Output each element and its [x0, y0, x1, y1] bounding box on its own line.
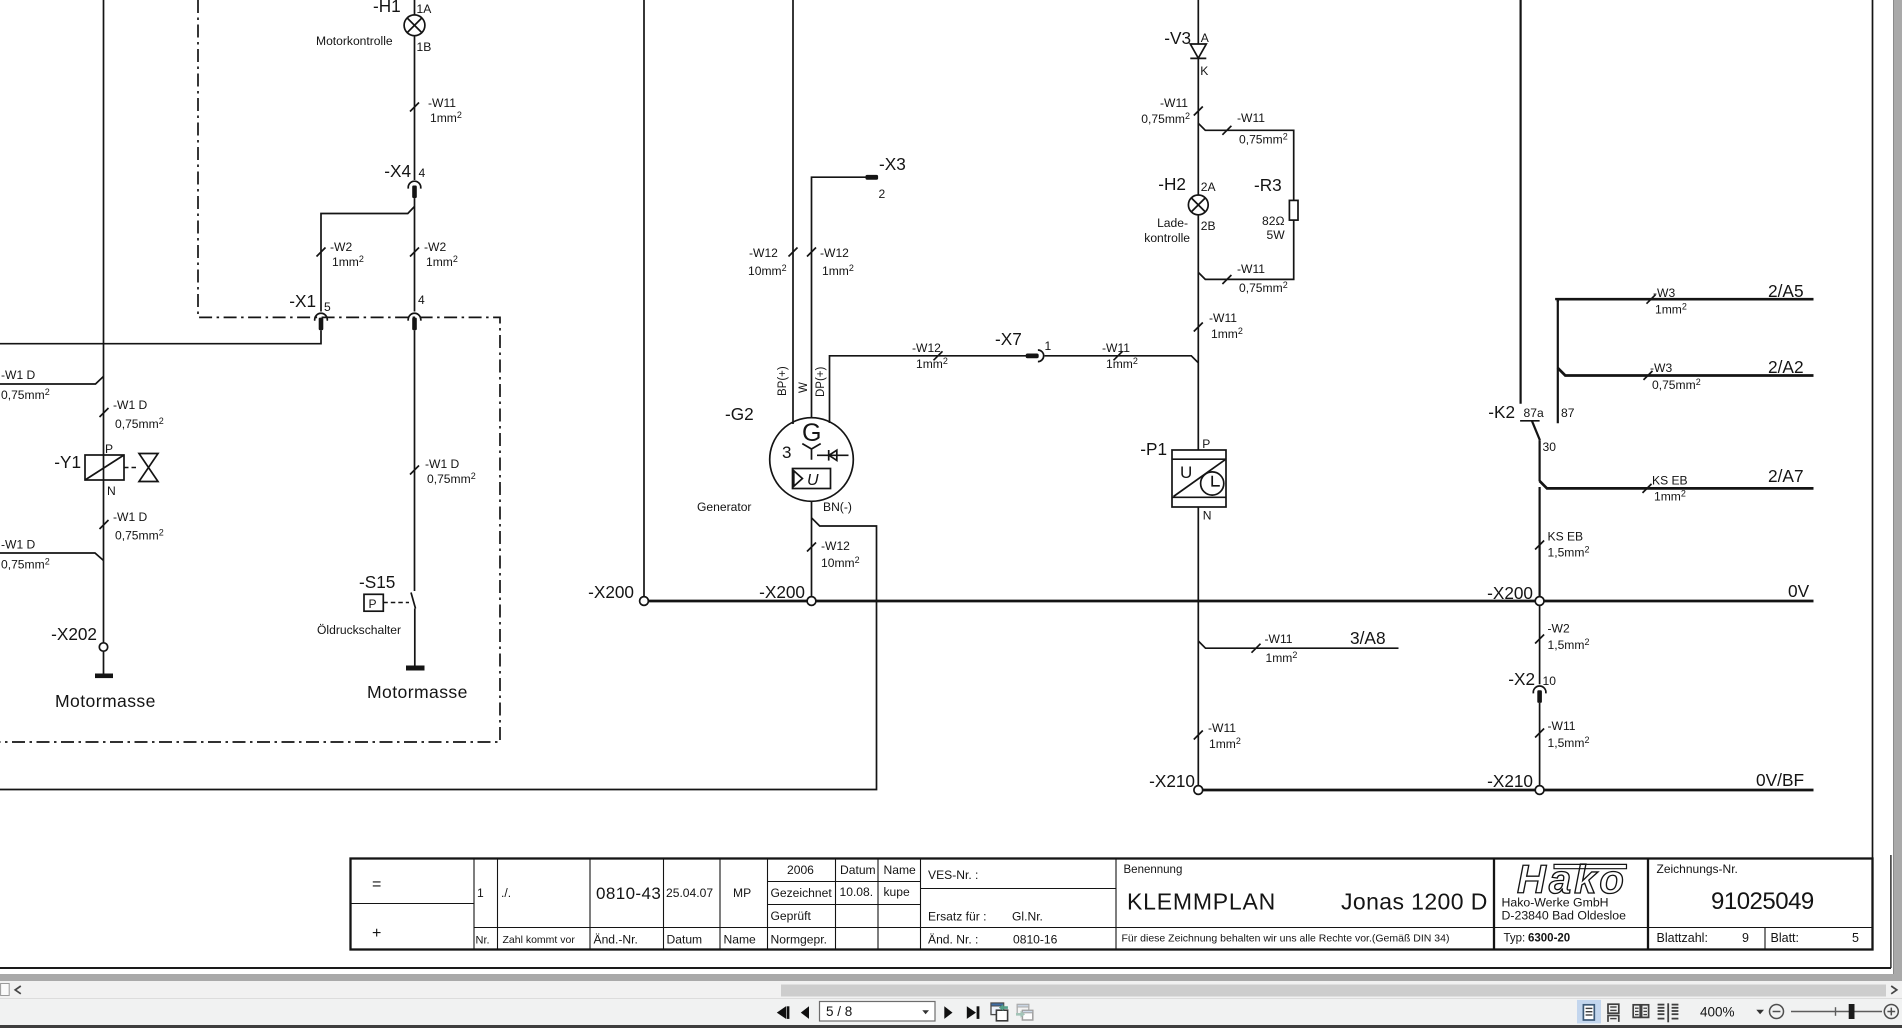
svg-text:0,75mm2: 0,75mm2 — [1141, 111, 1190, 126]
wire: left bus feed vertical x644 — [643, 0, 645, 597]
svg-text:2/A7: 2/A7 — [1768, 466, 1804, 486]
wire: X1:4 down to S15 — [414, 330, 416, 591]
svg-text:-W11: -W11 — [1548, 719, 1576, 733]
svg-text:G: G — [802, 419, 821, 447]
svg-text:-V3: -V3 — [1164, 28, 1191, 48]
svg-text:-G2: -G2 — [725, 404, 754, 424]
svg-text:30: 30 — [1543, 440, 1557, 454]
contact K2 hinge bar — [1520, 420, 1540, 422]
svg-text:Gezeichnet: Gezeichnet — [771, 886, 833, 900]
svg-text:Datum: Datum — [667, 933, 703, 947]
svg-text:25.04.07: 25.04.07 — [666, 886, 713, 900]
svg-text:1mm2: 1mm2 — [916, 356, 948, 371]
node X210 (right) — [1535, 786, 1544, 795]
solenoid valve Y1 coil box — [85, 455, 124, 480]
wire: generator bottom to X200 node — [811, 501, 813, 596]
wire 2/A5 branch — [1557, 299, 1814, 300]
svg-text:Änd.-Nr.: Änd.-Nr. — [594, 933, 638, 947]
generator internal diode — [817, 450, 849, 461]
resistor R3 body — [1289, 200, 1298, 220]
svg-text:91025049: 91025049 — [1711, 888, 1814, 915]
svg-text:Änd. Nr. :: Änd. Nr. : — [928, 933, 978, 947]
title block column lines — [474, 859, 1765, 950]
generator G2 circle — [770, 418, 854, 502]
svg-text:Lade-: Lade- — [1157, 216, 1188, 230]
wire: P1 down across bus to X210 — [1197, 507, 1199, 786]
terminal X4 pin 4 (socket arc + pin) — [408, 181, 421, 198]
label -W12 10mm2 (BP wire) — [748, 246, 787, 278]
svg-text:-X200: -X200 — [759, 582, 805, 602]
svg-text:-W11: -W11 — [1209, 311, 1237, 325]
svg-text:0,75mm2: 0,75mm2 — [115, 416, 164, 431]
revision row: 1 ./. 0810-43 25.04.07 MP — [477, 884, 751, 903]
svg-text:-R3: -R3 — [1254, 175, 1282, 195]
Benennung section — [1122, 864, 1488, 945]
wire: branch to X1:5 (horizontal + left vertical) — [321, 207, 415, 312]
wire slash mark W2 (right branch) — [410, 248, 419, 257]
ground bar Motormasse (left) — [95, 674, 113, 679]
wire: generator W phase up and to X3 — [812, 177, 867, 418]
Typ row — [1504, 933, 1571, 945]
svg-text:U: U — [807, 472, 819, 489]
wire: K2 87a feed from top — [1519, 0, 1521, 404]
svg-text:Motormasse: Motormasse — [55, 691, 156, 711]
svg-text:KS EB: KS EB — [1652, 474, 1688, 488]
svg-text:10: 10 — [1543, 674, 1557, 688]
bus 0V X200 — [648, 600, 1814, 603]
bottom labels: Nr. Zahl kommt vor Aend.-Nr. Datum Name — [476, 933, 757, 947]
bus 0V/BF X210 — [1203, 789, 1814, 792]
view mode icons — [1577, 1000, 1601, 1024]
svg-text:VES-Nr. :: VES-Nr. : — [928, 868, 978, 882]
wire: H1 down to terminal X4 — [414, 36, 416, 180]
Blattzahl / Blatt row — [1657, 931, 1860, 945]
svg-text:5 / 8: 5 / 8 — [826, 1004, 852, 1019]
svg-text:-W1 D: -W1 D — [1, 538, 36, 552]
svg-text:P: P — [105, 442, 113, 456]
wire slash mark W11 (after X7) — [1114, 351, 1123, 360]
wire slash mark W12 (BP) — [789, 248, 798, 257]
svg-text:-W11: -W11 — [1237, 111, 1265, 125]
title block row lines — [351, 882, 1873, 928]
label -W12 1mm2 (X7 line) — [912, 341, 948, 371]
svg-text:1mm2: 1mm2 — [1654, 489, 1686, 504]
svg-text:1mm2: 1mm2 — [1266, 650, 1298, 665]
svg-text:-W2: -W2 — [424, 240, 446, 254]
wire: vertical feed to solenoid Y1 / X202 — [103, 0, 105, 643]
wire: 30 down with 2/A7 chamfer branch — [1538, 440, 1540, 481]
svg-text:W: W — [798, 382, 810, 393]
svg-text:-X2: -X2 — [1508, 669, 1535, 689]
svg-text:-W11: -W11 — [1102, 341, 1130, 355]
svg-text:-K2: -K2 — [1488, 402, 1515, 422]
wire: X7 to H2/W11 vertical with chamfer — [1045, 356, 1199, 363]
svg-text:-W3: -W3 — [1650, 361, 1672, 375]
svg-text:-W11: -W11 — [1237, 262, 1265, 276]
svg-text:DP(+): DP(+) — [815, 366, 827, 397]
svg-text:1: 1 — [1045, 339, 1052, 353]
svg-text:kontrolle: kontrolle — [1144, 231, 1190, 245]
svg-text:1B: 1B — [417, 40, 432, 54]
svg-text:Generator: Generator — [697, 500, 751, 514]
svg-text:-H1: -H1 — [373, 0, 401, 16]
svg-text:1,5mm2: 1,5mm2 — [1548, 735, 1590, 750]
label KS EB 1mm2 (2/A7 line) — [1652, 474, 1688, 504]
wire 2/A7 KS EB branch — [1540, 481, 1814, 488]
svg-text:-W12: -W12 — [821, 539, 850, 553]
svg-text:Normgepr.: Normgepr. — [771, 933, 827, 947]
svg-text:Geprüft: Geprüft — [771, 909, 812, 923]
VES section — [928, 868, 1058, 947]
label -W11 1,5mm2 — [1548, 719, 1590, 750]
label -W12 10mm2 (gen bottom) — [821, 539, 860, 570]
wire slash mark KS EB (2/A7) — [1643, 484, 1652, 493]
svg-text:1mm2: 1mm2 — [332, 254, 364, 269]
frame: inner right border — [1872, 0, 1874, 858]
Hako address — [1502, 896, 1627, 923]
svg-text:-W2: -W2 — [330, 240, 352, 254]
svg-text:2006: 2006 — [787, 863, 814, 877]
wire slash mark W11 (R3 top) — [1222, 126, 1231, 135]
terminal X2 pin 10 — [1533, 686, 1546, 703]
svg-text:-X200: -X200 — [1487, 583, 1533, 603]
viewer background strip right of page — [1893, 0, 1902, 981]
wire slash mark W1D on vertical (lower) — [100, 520, 109, 529]
svg-text:-W11: -W11 — [1208, 721, 1236, 735]
svg-text:Zahl kommt vor: Zahl kommt vor — [503, 934, 576, 946]
svg-text:5: 5 — [1852, 931, 1859, 945]
wire: S15 to ground — [414, 609, 416, 667]
svg-text:P: P — [1202, 437, 1210, 451]
wire slash mark W12 (X7 line) — [934, 351, 943, 360]
node X200 (left end) — [640, 597, 649, 606]
title block outer border — [351, 859, 1873, 950]
svg-text:-W1 D: -W1 D — [113, 398, 148, 412]
wire: K2:30 down to X200 bus — [1538, 487, 1540, 597]
label -W2 1mm2 (left) — [330, 240, 364, 269]
wire: X1:5 down then left to edge — [0, 330, 321, 344]
bottom viewer UI — [0, 974, 1902, 1028]
svg-text:MP: MP — [733, 886, 751, 900]
svg-text:4: 4 — [418, 293, 425, 307]
wire slash mark W12 (W wire) — [807, 248, 816, 257]
svg-text:1mm2: 1mm2 — [430, 110, 462, 125]
svg-text:Nr.: Nr. — [476, 935, 490, 947]
svg-text:D-23840 Bad Oldesloe: D-23840 Bad Oldesloe — [1502, 909, 1627, 923]
generator star symbol — [802, 444, 820, 460]
label -W11 0,75mm2 (R3 top) — [1237, 111, 1288, 147]
wire slash mark W3 (2/A2) — [1644, 371, 1653, 380]
svg-text:U: U — [1180, 463, 1192, 482]
svg-text:5: 5 — [324, 300, 331, 314]
label -W2 1mm2 (right) — [424, 240, 458, 269]
svg-text:0810-43: 0810-43 — [596, 884, 661, 903]
wire: stub above diode V3 — [1197, 0, 1199, 44]
label -W1 D 0,75mm2 (left edge lower) — [1, 538, 50, 572]
svg-text:2: 2 — [879, 187, 886, 201]
lamp H1 Motorkontrolle — [404, 15, 425, 36]
frame: outer page border bottom — [0, 967, 1891, 969]
svg-text:-W1 D: -W1 D — [113, 510, 148, 524]
svg-text:0,75mm2: 0,75mm2 — [1, 387, 50, 402]
wire slash mark W11 (3/A8) — [1252, 644, 1261, 653]
node X200 (right) — [1535, 597, 1544, 606]
svg-text:0V/BF: 0V/BF — [1756, 770, 1804, 790]
diode V3 — [1190, 44, 1206, 58]
svg-text:Name: Name — [724, 933, 757, 947]
svg-text:-X7: -X7 — [995, 329, 1022, 349]
svg-text:Gl.Nr.: Gl.Nr. — [1012, 910, 1043, 924]
wire: 87 vertical with 2/A5 top corner — [1557, 299, 1559, 423]
svg-text:A: A — [1201, 31, 1210, 45]
svg-text:0V: 0V — [1788, 581, 1810, 601]
svg-text:2B: 2B — [1201, 219, 1216, 233]
label -W3 0,75mm2 (2/A2) — [1650, 361, 1701, 392]
label -W1 D 0,75mm2 (on vertical upper) — [113, 398, 164, 431]
svg-text:KS EB: KS EB — [1548, 530, 1584, 544]
terminal X202 circle — [99, 643, 107, 651]
svg-text:1mm2: 1mm2 — [822, 263, 854, 278]
svg-text:-W3: -W3 — [1653, 286, 1675, 300]
svg-text:Datum: Datum — [840, 863, 876, 877]
terminal X1 pin 4 — [408, 313, 421, 330]
svg-text:4: 4 — [419, 166, 426, 180]
svg-text:Zeichnungs-Nr.: Zeichnungs-Nr. — [1657, 862, 1738, 876]
wire: vertical between 2/A5 and 2/A2 chamfer — [1557, 299, 1559, 368]
label 82ohm 5W — [1262, 214, 1285, 242]
svg-text:Blattzahl:: Blattzahl: — [1657, 931, 1708, 945]
svg-text:+: + — [372, 925, 381, 942]
terminal X1 pin 5 — [315, 313, 328, 330]
svg-text:0,75mm2: 0,75mm2 — [115, 528, 164, 543]
svg-text:0,75mm2: 0,75mm2 — [427, 471, 476, 486]
svg-text:-X200: -X200 — [588, 582, 634, 602]
svg-text:-S15: -S15 — [359, 572, 395, 592]
wire slash mark W11 (above P1) — [1194, 323, 1203, 332]
svg-text:9: 9 — [1742, 931, 1749, 945]
svg-text:2/A2: 2/A2 — [1768, 357, 1804, 377]
svg-text:1: 1 — [477, 886, 484, 900]
dashed actuator link S15 — [383, 602, 409, 604]
svg-text:-W12: -W12 — [749, 246, 778, 260]
svg-text:Motormasse: Motormasse — [367, 682, 468, 702]
wire slash mark KS EB (vertical) — [1535, 541, 1544, 550]
label -W3 1mm2 (2/A5) — [1653, 286, 1687, 317]
svg-text:-X3: -X3 — [879, 154, 906, 174]
valve symbol (hourglass) — [139, 454, 158, 482]
label -W12 1mm2 (W wire) — [820, 246, 854, 278]
svg-text:3/A8: 3/A8 — [1350, 628, 1386, 648]
svg-text:-W1 D: -W1 D — [1, 368, 36, 382]
svg-text:Typ:: Typ: — [1504, 933, 1526, 945]
svg-text:10mm2: 10mm2 — [821, 555, 860, 570]
wire slash mark W1D (S15 branch) — [410, 466, 419, 475]
svg-text:Ersatz für :: Ersatz für : — [928, 910, 986, 924]
label -W1 D 0,75mm2 (on vertical lower) — [113, 510, 164, 543]
wire 2/A2 branch with chamfer — [1558, 368, 1814, 376]
svg-text:0,75mm2: 0,75mm2 — [1239, 280, 1288, 295]
svg-text:=: = — [372, 876, 381, 893]
svg-text:BP(+): BP(+) — [777, 366, 789, 396]
svg-text:0,75mm2: 0,75mm2 — [1, 557, 50, 572]
svg-text:-W12: -W12 — [820, 246, 849, 260]
dashed actuator link Y1 — [124, 467, 138, 469]
label -W11 0,75mm2 (below V3) — [1141, 96, 1190, 126]
wire: W1 D upper from left edge joining vertical — [0, 376, 104, 384]
Zeichnungs-Nr. section — [1657, 862, 1814, 915]
wire: bus to X2 terminal — [1539, 605, 1541, 684]
svg-text:Für diese Zeichnung behalten w: Für diese Zeichnung behalten wir uns all… — [1122, 933, 1450, 945]
wire slash mark W2 (below bus) — [1535, 635, 1544, 644]
wire slash mark W12 (gen bottom) — [807, 543, 816, 552]
node X200 (generator) — [807, 597, 816, 606]
Hako logo — [1517, 858, 1627, 902]
svg-text:1mm2: 1mm2 — [1209, 736, 1241, 751]
contact K2 blade — [1532, 421, 1540, 440]
svg-text:1mm2: 1mm2 — [1655, 302, 1687, 317]
svg-text:0,75mm2: 0,75mm2 — [1239, 132, 1288, 147]
wire: 3/A8 branch with chamfer — [1198, 641, 1398, 648]
svg-text:10.08.: 10.08. — [840, 885, 874, 899]
svg-text:N: N — [1203, 509, 1212, 523]
svg-text:Öldruckschalter: Öldruckschalter — [317, 623, 401, 637]
connector X7 pin 1 (pin + socket) — [1026, 350, 1044, 362]
wire: H2 down to P1 — [1197, 215, 1199, 450]
svg-text:6300-20: 6300-20 — [1528, 933, 1570, 945]
wire slash mark W11 (R3 bottom) — [1222, 275, 1231, 284]
label KS EB 1,5mm2 (vertical) — [1548, 530, 1590, 560]
svg-text:-W11: -W11 — [428, 96, 456, 110]
dash-dot enclosure boundary (engine compartment) — [0, 0, 500, 742]
label -W11 1mm2 (above P1) — [1209, 311, 1243, 341]
meter P1 box — [1172, 450, 1226, 507]
svg-text:3: 3 — [782, 443, 791, 462]
label -W11 1mm2 (3/A8) — [1265, 632, 1298, 665]
label -W11 1mm2 (after X7) — [1102, 341, 1138, 371]
svg-text:0810-16: 0810-16 — [1013, 933, 1058, 947]
label -W2 1,5mm2 — [1548, 622, 1590, 653]
svg-text:-W2: -W2 — [1548, 622, 1570, 636]
svg-text:-X210: -X210 — [1487, 771, 1533, 791]
label -W1 D 0,75mm2 (S15 branch) — [425, 457, 476, 486]
wire slash mark W11 (above X210 left) — [1194, 731, 1203, 740]
wire: generator BP(+) up to top edge — [792, 0, 794, 424]
svg-text:-X210: -X210 — [1149, 771, 1195, 791]
pressure switch S15 contact blade — [411, 593, 416, 609]
svg-text:KLEMMPLAN: KLEMMPLAN — [1127, 889, 1276, 915]
svg-text:0,75mm2: 0,75mm2 — [1652, 377, 1701, 392]
node X210 (left) — [1194, 786, 1203, 795]
header cells: 2006 Datum Name — [787, 863, 916, 877]
svg-text:87: 87 — [1561, 406, 1575, 420]
svg-text:Blatt:: Blatt: — [1771, 931, 1800, 945]
svg-text:N: N — [107, 484, 116, 498]
svg-text:1A: 1A — [417, 2, 433, 16]
wire slash mark W1D on vertical (upper) — [100, 408, 109, 417]
frame: outer page border right — [1890, 855, 1892, 968]
wire slash mark W2 (left branch) — [317, 248, 326, 257]
generator regulator box >U — [793, 469, 831, 490]
svg-text:Name: Name — [884, 863, 917, 877]
wire slash mark W11 — [410, 103, 419, 112]
svg-text:1mm2: 1mm2 — [426, 254, 458, 269]
svg-text:Motorkontrolle: Motorkontrolle — [316, 34, 393, 48]
svg-text:82Ω: 82Ω — [1262, 214, 1285, 228]
svg-text:-Y1: -Y1 — [54, 452, 81, 472]
row Gezeichnet 10.08. kupe — [771, 885, 910, 900]
svg-text:5W: 5W — [1267, 228, 1286, 242]
label -W11 1mm2 (below H1) — [428, 96, 462, 125]
svg-text:1,5mm2: 1,5mm2 — [1548, 637, 1590, 652]
svg-text:BN(-): BN(-) — [823, 500, 852, 514]
terminal X3 pin 2 (male pin) — [866, 175, 879, 180]
svg-text:Hako-Werke GmbH: Hako-Werke GmbH — [1502, 896, 1609, 910]
svg-text:400%: 400% — [1700, 1005, 1735, 1020]
svg-text:-H2: -H2 — [1158, 174, 1186, 194]
wire: generator DP(+) up then right to X7 — [830, 356, 1027, 423]
svg-text:87a: 87a — [1524, 406, 1544, 420]
wire: X202 circle to ground — [103, 651, 105, 674]
label -W11 0,75mm2 (R3 bottom) — [1237, 262, 1288, 295]
wire: W1 D lower from left edge joining vertical — [0, 553, 104, 561]
wire: X4 down to X1:4 — [414, 198, 416, 311]
svg-text:-X202: -X202 — [51, 624, 97, 644]
wire slash mark W3 (2/A5) — [1647, 295, 1656, 304]
svg-text:2A: 2A — [1201, 180, 1217, 194]
svg-text:kupe: kupe — [884, 885, 910, 899]
svg-text:-W12: -W12 — [912, 341, 941, 355]
ground bar Motormasse (right) — [406, 666, 425, 671]
svg-text:-P1: -P1 — [1140, 439, 1167, 459]
svg-text:K: K — [1200, 64, 1208, 78]
label -W11 1mm2 (above X210 left) — [1208, 721, 1241, 751]
wire: R3 shunt loop — [1198, 123, 1293, 279]
wire slash mark W11 (below V3) — [1194, 107, 1203, 116]
svg-text:-X4: -X4 — [384, 161, 411, 181]
svg-text:P: P — [369, 597, 377, 611]
svg-text:./.: ./. — [501, 886, 511, 900]
wire slash mark W11 (above X210 right) — [1535, 729, 1544, 738]
wire: X2 down to X210 — [1539, 703, 1541, 786]
wire: BN(-) branch down-right, down, and left to edge — [0, 518, 877, 790]
svg-text:1mm2: 1mm2 — [1211, 326, 1243, 341]
pressure switch S15 P box — [364, 594, 383, 611]
svg-text:10mm2: 10mm2 — [748, 263, 787, 278]
svg-text:1mm2: 1mm2 — [1106, 356, 1138, 371]
lamp H1 wire stub above — [414, 0, 416, 15]
svg-text:Jonas 1200 D: Jonas 1200 D — [1341, 889, 1488, 915]
svg-text:-W1 D: -W1 D — [425, 457, 460, 471]
svg-text:-W11: -W11 — [1160, 96, 1188, 110]
svg-text:1,5mm2: 1,5mm2 — [1548, 545, 1590, 560]
lamp H2 Ladekontrolle — [1188, 195, 1208, 215]
svg-text:Benennung: Benennung — [1124, 864, 1183, 876]
label Lade- kontrolle — [1144, 216, 1190, 245]
svg-text:-X1: -X1 — [289, 291, 316, 311]
label -W1 D 0,75mm2 (left edge upper) — [1, 368, 50, 402]
svg-text:2/A5: 2/A5 — [1768, 281, 1804, 301]
svg-text:-W11: -W11 — [1265, 632, 1293, 646]
wire: V3 to H2 — [1197, 58, 1199, 195]
